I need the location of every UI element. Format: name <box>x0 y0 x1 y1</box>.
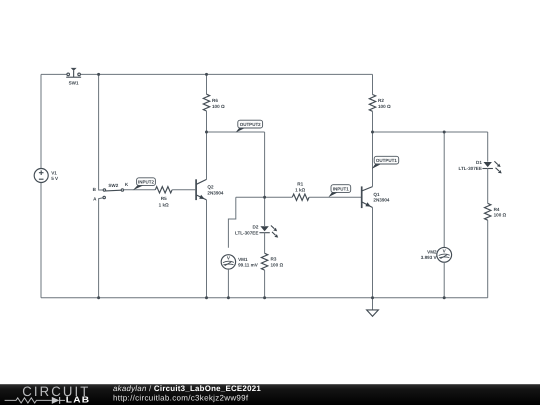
svg-text:100 Ω: 100 Ω <box>378 104 391 109</box>
svg-text:http://circuitlab.com/c3kekjz2: http://circuitlab.com/c3kekjz2ww99f <box>113 394 249 403</box>
LED D2 <box>260 226 268 231</box>
svg-text:LAB: LAB <box>66 395 91 405</box>
wire SW2 lower column <box>99 198 104 298</box>
svg-text:1 kΩ: 1 kΩ <box>159 203 169 208</box>
junction OUTPUT1 wire at VM2 column <box>443 131 446 134</box>
junction bottom rail at R3 column <box>263 296 266 299</box>
switch SW2 <box>103 189 124 199</box>
label flag OUTPUT1 <box>372 156 399 169</box>
svg-text:5 V: 5 V <box>51 176 59 181</box>
wire K to R5 <box>124 189 156 191</box>
svg-text:SW1: SW1 <box>69 80 79 85</box>
svg-text:LTL-307EE: LTL-307EE <box>458 166 481 171</box>
junction INPUT1 wire at D2 column <box>263 196 266 199</box>
label flag INPUT2 <box>133 178 156 190</box>
svg-text:VM2: VM2 <box>427 249 437 254</box>
svg-text:LTL-307EE: LTL-307EE <box>235 230 258 235</box>
wire Q2 collector <box>206 132 208 179</box>
transistor Q2 <box>196 179 206 200</box>
svg-text:100 Ω: 100 Ω <box>271 262 284 267</box>
wire D2 to R3 <box>264 233 266 254</box>
wire R4 to bottom <box>487 220 489 298</box>
wire bottom rail <box>41 297 488 299</box>
svg-text:2N3904: 2N3904 <box>373 198 390 203</box>
voltage source V1 <box>34 169 48 183</box>
svg-text:akadylan / Circuit3_LabOne_ECE: akadylan / Circuit3_LabOne_ECE2021 <box>113 384 261 393</box>
junction bottom rail at Q2 emitter column <box>205 296 208 299</box>
LED D1 <box>484 162 492 167</box>
wire VM1 jog <box>228 197 235 248</box>
svg-text:D2: D2 <box>253 225 259 230</box>
wire OUTPUT1 node <box>373 131 488 133</box>
wire D1 to R4 <box>487 168 489 203</box>
wire R1 to Q1 base <box>309 196 361 198</box>
wire OUTPUT2 node <box>207 131 265 133</box>
wire VM2 column <box>443 132 445 247</box>
svg-text:INPUT1: INPUT1 <box>333 186 350 191</box>
voltmeter VM1 <box>221 255 235 269</box>
svg-text:D1: D1 <box>476 160 482 165</box>
wire VM1 to bottom <box>227 269 229 298</box>
transistor Q1 <box>362 186 373 208</box>
svg-text:99.11 mV: 99.11 mV <box>238 263 259 268</box>
svg-text:OUTPUT1: OUTPUT1 <box>376 158 397 163</box>
wire Q1 emitter <box>372 208 374 298</box>
junction bottom rail at SW2-A column <box>97 296 100 299</box>
svg-text:R5: R5 <box>161 196 167 201</box>
junction bottom rail at VM1 column <box>227 296 230 299</box>
resistor R6 <box>206 74 208 94</box>
svg-text:R3: R3 <box>271 257 277 262</box>
wire INPUT1 node <box>236 196 292 198</box>
wire D2 column upper <box>264 132 266 226</box>
svg-text:3.893 V: 3.893 V <box>421 255 438 260</box>
svg-text:Q1: Q1 <box>373 192 380 197</box>
svg-text:100 Ω: 100 Ω <box>212 104 225 109</box>
resistor R4 <box>485 203 491 220</box>
svg-text:100 Ω: 100 Ω <box>494 213 507 218</box>
resistor R5 <box>155 187 172 193</box>
svg-text:Q2: Q2 <box>207 185 214 190</box>
label flag INPUT1 <box>328 185 350 197</box>
svg-text:R1: R1 <box>297 182 303 187</box>
junction top rail at R6 column <box>205 73 208 76</box>
svg-text:1 kΩ: 1 kΩ <box>295 187 305 192</box>
resistor R1 <box>292 194 309 200</box>
LED D2 light arrows <box>271 226 276 236</box>
junction top rail at SW2 column <box>97 73 100 76</box>
svg-text:SW2: SW2 <box>108 183 118 188</box>
wire VM2 to bottom <box>443 262 445 298</box>
svg-text:OUTPUT2: OUTPUT2 <box>240 122 261 127</box>
svg-text:2N3904: 2N3904 <box>207 191 224 196</box>
wire top rail <box>41 73 373 75</box>
logo squiggle: wire + resistor + diode <box>5 397 65 404</box>
wire SW2 upper column <box>99 74 104 190</box>
svg-text:R4: R4 <box>494 207 500 212</box>
wire D1 column upper <box>487 132 489 162</box>
ground <box>372 298 374 310</box>
wire R3 to bottom <box>264 270 266 298</box>
svg-text:V1: V1 <box>51 171 57 176</box>
svg-text:VM1: VM1 <box>238 257 248 262</box>
junction bottom rail at VM2 column <box>443 296 446 299</box>
junction OUTPUT2 node at R6 bottom / Q2 collector <box>205 131 208 134</box>
label flag OUTPUT2 <box>236 120 263 132</box>
junction bottom rail at ground / Q1 emitter <box>371 296 374 299</box>
resistor R3 <box>261 253 267 270</box>
switch SW1 <box>66 68 81 77</box>
svg-text:R2: R2 <box>378 98 384 103</box>
junction OUTPUT1 node at R2 bottom / Q1 collector <box>371 131 374 134</box>
svg-text:INPUT2: INPUT2 <box>138 180 155 185</box>
wire R5 to Q2 base <box>172 189 195 191</box>
LED D1 light arrows <box>494 161 499 171</box>
wire Q1 collector <box>372 132 374 187</box>
voltmeter VM2 <box>437 247 452 262</box>
wire Q2 emitter <box>206 200 208 298</box>
resistor R2 <box>372 74 374 94</box>
svg-text:R6: R6 <box>212 98 218 103</box>
wire left rail <box>40 74 42 297</box>
